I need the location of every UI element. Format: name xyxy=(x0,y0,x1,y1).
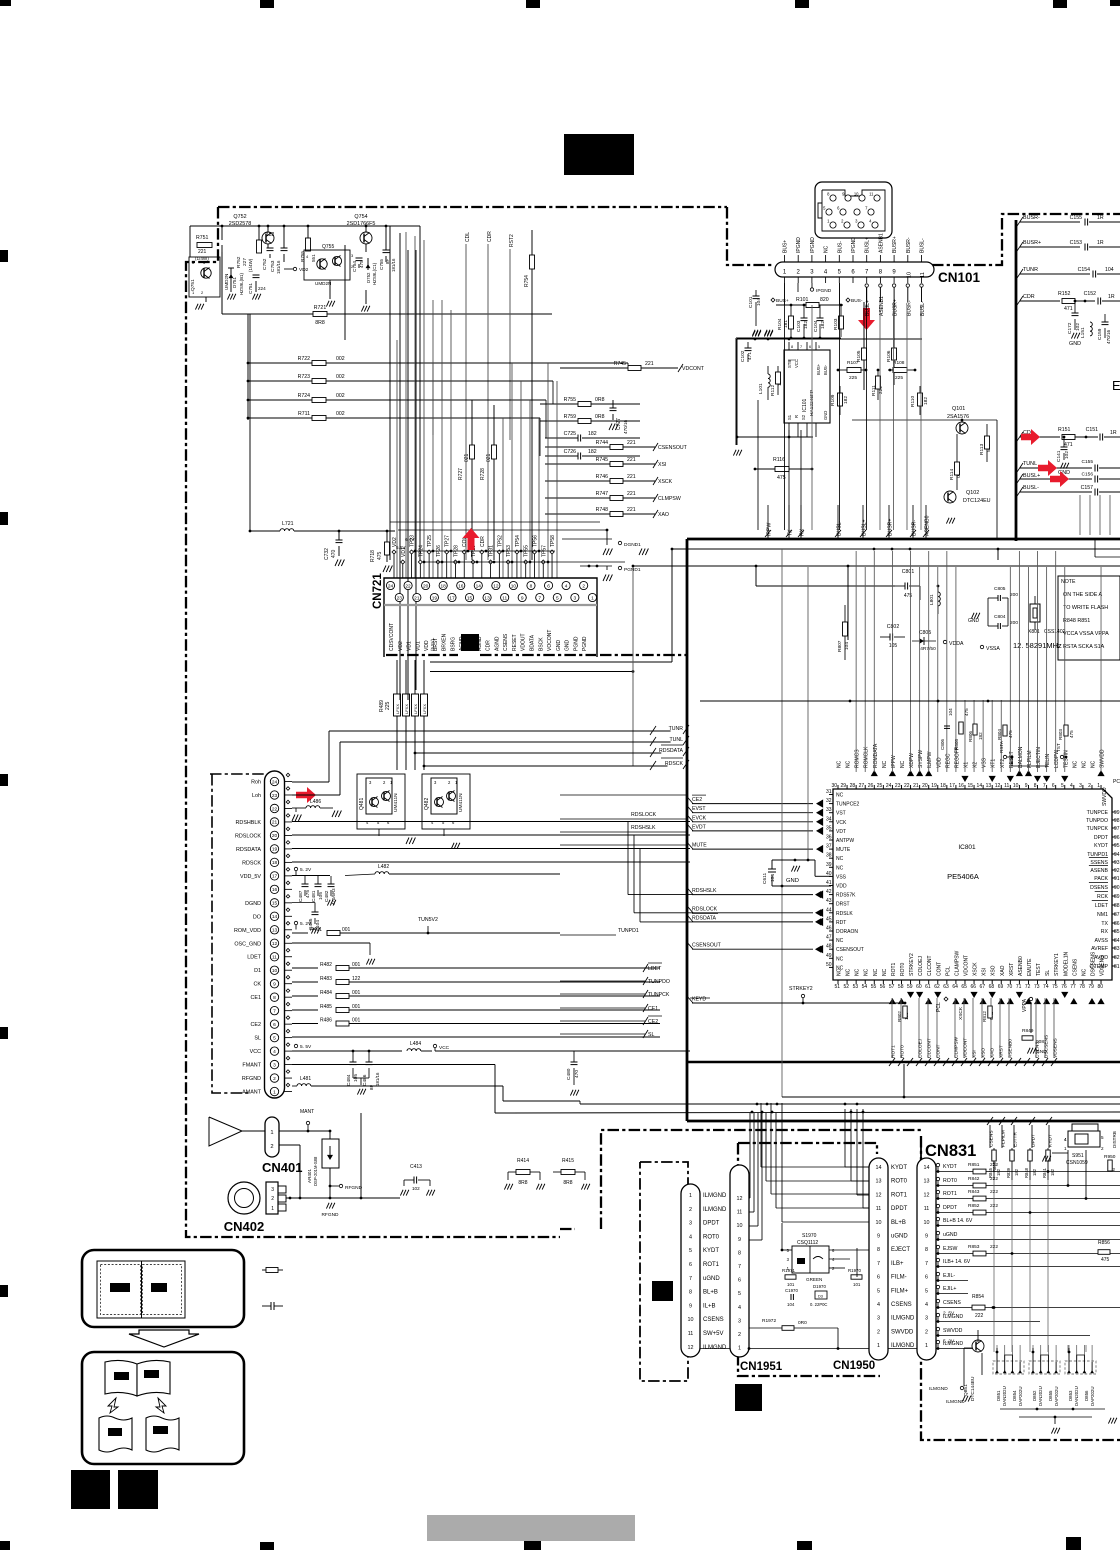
capacitor C801 475 xyxy=(895,569,920,600)
svg-text:TUNL: TUNL xyxy=(1023,461,1037,467)
svg-text:23: 23 xyxy=(272,793,278,799)
svg-text:36: 36 xyxy=(826,835,832,841)
svg-text:39: 39 xyxy=(826,862,832,868)
resistor R803 475 xyxy=(1058,725,1074,740)
svg-text:5: 5 xyxy=(689,1248,692,1254)
svg-text:10: 10 xyxy=(924,1220,930,1226)
svg-text:R718: R718 xyxy=(370,550,376,562)
svg-text:BUS-: BUS- xyxy=(851,298,863,304)
svg-text:X1: X1 xyxy=(963,762,969,768)
svg-text:1: 1 xyxy=(925,1343,928,1349)
svg-text:551: 551 xyxy=(311,254,316,262)
wire RDS jog verticals xyxy=(628,822,692,922)
svg-text:15: 15 xyxy=(272,901,278,907)
wire Loh/MUTE feed rows xyxy=(560,795,688,845)
capacitor C727 470/16 xyxy=(609,400,628,434)
wire OSC_GND xyxy=(292,943,375,965)
ground GND (crystal) xyxy=(968,613,980,624)
svg-text:IPGND: IPGND xyxy=(796,237,802,253)
svg-text:TUNPCE: TUNPCE xyxy=(1087,810,1109,816)
ground (C412) xyxy=(400,1190,434,1196)
capacitor C726 182 xyxy=(545,449,640,460)
wire left feed column xyxy=(247,314,249,420)
svg-text:R485: R485 xyxy=(320,1004,332,1010)
svg-text:99: 99 xyxy=(1114,810,1120,816)
svg-text:11: 11 xyxy=(688,1331,694,1337)
svg-text:2: 2 xyxy=(689,1207,692,1213)
svg-text:80: 80 xyxy=(1097,984,1103,990)
svg-text:VSS: VSS xyxy=(982,757,988,768)
svg-text:12: 12 xyxy=(924,1192,930,1198)
svg-text:VDD: VDD xyxy=(936,757,942,768)
svg-text:KYDT: KYDT xyxy=(1094,843,1109,849)
IC IC801 PE5406A body xyxy=(833,789,1112,980)
resistor R724 002 xyxy=(247,393,546,403)
wire CN831 row ROT0 xyxy=(936,1176,1120,1188)
wire RDSCK xyxy=(424,758,689,770)
svg-text:CE1: CE1 xyxy=(251,995,262,1001)
wire CN402 to ground rail xyxy=(286,1113,400,1199)
svg-text:CN1951: CN1951 xyxy=(740,1361,783,1373)
svg-text:COLOEJ: COLOEJ xyxy=(918,1038,924,1058)
svg-text:8: 8 xyxy=(738,1250,741,1256)
svg-text:PGND1: PGND1 xyxy=(624,567,641,573)
resistor R751 221 xyxy=(195,235,212,261)
svg-text:66: 66 xyxy=(970,984,976,990)
svg-text:ASENB0: ASENB0 xyxy=(1018,956,1024,976)
resistor R802 105 xyxy=(897,1006,909,1022)
svg-text:RDT: RDT xyxy=(836,920,846,926)
svg-text:C732: C732 xyxy=(324,548,330,560)
svg-text:ASENB0: ASENB0 xyxy=(925,515,931,536)
svg-text:3: 3 xyxy=(1079,783,1082,789)
svg-text:CLMPSW: CLMPSW xyxy=(658,496,681,502)
svg-text:221: 221 xyxy=(627,507,636,513)
svg-text:200: 200 xyxy=(1010,620,1018,626)
resistor R950 102 xyxy=(1104,1154,1116,1173)
svg-text:10: 10 xyxy=(876,1220,882,1226)
svg-text:222: 222 xyxy=(975,1313,984,1319)
svg-text:VDDA: VDDA xyxy=(949,641,964,647)
diode C805 4R7/50 xyxy=(912,630,936,652)
svg-text:18: 18 xyxy=(272,860,278,866)
node XSCK xyxy=(947,1006,964,1020)
resistor R804 475 xyxy=(997,725,1013,740)
svg-text:001: 001 xyxy=(352,990,361,996)
svg-text:GND: GND xyxy=(1069,341,1081,347)
svg-text:CK: CK xyxy=(254,982,262,988)
svg-text:C487: C487 xyxy=(298,890,304,902)
svg-text:R853: R853 xyxy=(968,1244,980,1250)
svg-text:NC: NC xyxy=(1072,760,1078,768)
svg-text:10: 10 xyxy=(511,583,517,589)
svg-text:CE2: CE2 xyxy=(251,1022,262,1028)
svg-text:32: 32 xyxy=(826,798,832,804)
node 5.5V (VCC) xyxy=(294,1044,312,1050)
svg-text:R1970: R1970 xyxy=(848,1268,861,1273)
svg-text:LFXX: LFXX xyxy=(404,704,409,714)
svg-text:4: 4 xyxy=(1070,783,1073,789)
svg-text:R759: R759 xyxy=(564,414,577,420)
svg-text:NC: NC xyxy=(836,938,844,944)
resistor R728 021 xyxy=(480,405,497,560)
svg-text:BUSR+: BUSR+ xyxy=(892,236,898,253)
svg-text:6: 6 xyxy=(809,345,811,349)
svg-text:4: 4 xyxy=(738,1305,741,1311)
svg-text:5.5V: 5.5V xyxy=(396,545,406,550)
wire RDSLOCK/EVCK rows (boundary) xyxy=(560,812,825,832)
svg-text:XSO: XSO xyxy=(981,1048,987,1058)
resistor R483 122 xyxy=(292,976,660,985)
svg-text:C725: C725 xyxy=(564,431,577,437)
ground (R415) xyxy=(553,1182,590,1190)
svg-text:DPDT: DPDT xyxy=(943,1205,958,1211)
photocoupler Q481 UM411N xyxy=(357,774,405,836)
svg-text:R112: R112 xyxy=(770,385,776,396)
svg-text:UM411N: UM411N xyxy=(393,793,399,812)
svg-text:D752: D752 xyxy=(366,272,371,283)
svg-text:R854: R854 xyxy=(972,1294,984,1300)
svg-text:47: 47 xyxy=(826,935,832,941)
svg-text:RFGND: RFGND xyxy=(321,1212,339,1218)
svg-text:25: 25 xyxy=(877,783,883,789)
svg-text:CDR: CDR xyxy=(1023,294,1035,300)
wire CN831 row uGND xyxy=(936,1231,1120,1241)
legend: down arrow xyxy=(129,1330,199,1347)
svg-text:R482: R482 xyxy=(320,962,332,968)
transistor Q102 DTC124EU xyxy=(944,490,991,506)
connector CN1950 right column xyxy=(917,1158,936,1360)
svg-text:475: 475 xyxy=(1008,730,1013,738)
svg-text:C726: C726 xyxy=(564,449,577,455)
svg-text:NC: NC xyxy=(855,968,861,976)
svg-text:NC: NC xyxy=(1090,760,1096,768)
svg-text:9: 9 xyxy=(521,595,524,601)
svg-text:CONT: CONT xyxy=(936,962,942,976)
connector CN401 xyxy=(262,1117,302,1175)
wire RDSLOCK row xyxy=(292,834,690,836)
svg-text:R483: R483 xyxy=(320,976,332,982)
capacitor C480 470 xyxy=(566,1051,580,1096)
svg-text:VDD_5V: VDD_5V xyxy=(240,874,261,880)
svg-text:RESET: RESET xyxy=(512,634,518,651)
ground (Q102) xyxy=(946,518,954,524)
svg-text:29: 29 xyxy=(841,783,847,789)
svg-text:BL+B: BL+B xyxy=(891,1220,906,1226)
resistor R807 104 xyxy=(837,566,850,660)
svg-text:R152: R152 xyxy=(1058,291,1071,297)
inductor L482 xyxy=(330,864,560,876)
svg-text:CE2: CE2 xyxy=(692,797,702,803)
connector CN101 plug face xyxy=(815,182,892,238)
svg-text:19: 19 xyxy=(931,783,937,789)
svg-text:182: 182 xyxy=(820,321,826,329)
svg-text:4: 4 xyxy=(925,1302,928,1308)
svg-text:NC: NC xyxy=(846,968,852,976)
svg-text:Loh: Loh xyxy=(252,793,261,799)
svg-text:AR401: AR401 xyxy=(307,1169,312,1183)
svg-text:20: 20 xyxy=(423,583,429,589)
svg-text:EJIL-: EJIL- xyxy=(943,1273,955,1279)
resistor R745 221 (VDCONT) xyxy=(560,361,705,372)
svg-text:R852: R852 xyxy=(968,1203,980,1209)
svg-text:C1970: C1970 xyxy=(785,1288,798,1293)
svg-text:NC: NC xyxy=(824,245,830,253)
svg-text:R151: R151 xyxy=(1058,427,1071,433)
svg-text:UMD2N: UMD2N xyxy=(224,274,229,290)
wire CN101 pin fanout xyxy=(757,283,926,316)
svg-text:R802: R802 xyxy=(897,1011,902,1022)
svg-text:8F: 8F xyxy=(369,1085,374,1090)
capacitor C611 104 xyxy=(762,859,831,888)
wire BUSR+ row xyxy=(1017,240,1120,251)
svg-text:475: 475 xyxy=(904,593,913,599)
wire CN101 bus verticals xyxy=(785,287,922,530)
svg-text:Q755: Q755 xyxy=(322,244,334,250)
wire CN831 row ILMGND xyxy=(936,1340,980,1350)
svg-text:Roh: Roh xyxy=(251,780,261,786)
node TUN5V2 xyxy=(418,917,438,934)
wire CN831 row DPDT xyxy=(936,1203,1120,1215)
svg-text:VST: VST xyxy=(836,811,846,817)
svg-text:41: 41 xyxy=(826,880,832,886)
svg-text:11: 11 xyxy=(869,192,874,197)
svg-text:1: 1 xyxy=(271,1206,274,1212)
wire FMANT xyxy=(292,1065,495,1114)
svg-text:DAP202U: DAP202U xyxy=(1018,1386,1023,1406)
svg-text:IPGND: IPGND xyxy=(816,288,832,294)
svg-text:182: 182 xyxy=(588,431,597,437)
svg-text:PE5406A: PE5406A xyxy=(947,872,979,881)
svg-text:L486: L486 xyxy=(310,799,321,805)
capacitor C103 182 xyxy=(796,304,809,337)
transistor Q101 2SA1576 xyxy=(852,406,997,538)
svg-text:CSENS: CSENS xyxy=(943,1300,961,1306)
svg-text:R806: R806 xyxy=(968,731,973,742)
capacitor C732 470 xyxy=(324,530,344,566)
capacitor C141 102 xyxy=(1056,436,1070,462)
wire regulator outputs xyxy=(345,226,420,700)
svg-text:104: 104 xyxy=(787,1302,795,1307)
svg-text:CDR: CDR xyxy=(486,640,492,651)
svg-text:SYSPW: SYSPW xyxy=(918,750,924,768)
svg-text:6: 6 xyxy=(547,583,550,589)
resistor R104 181 xyxy=(777,304,794,337)
svg-text:RSTA SCKA S1A: RSTA SCKA S1A xyxy=(1063,644,1105,650)
svg-text:C413: C413 xyxy=(410,1164,422,1170)
svg-text:BUSL+: BUSL+ xyxy=(1023,473,1040,479)
svg-text:2: 2 xyxy=(877,1329,880,1335)
svg-text:XSCK: XSCK xyxy=(973,962,979,976)
svg-text:RFGND: RFGND xyxy=(345,1185,363,1191)
svg-text:1: 1 xyxy=(591,595,594,601)
node STRKEY2 xyxy=(789,986,813,1003)
svg-text:R839: R839 xyxy=(1006,1167,1011,1178)
resistor R484 001 xyxy=(292,990,660,999)
svg-text:R856: R856 xyxy=(1098,1240,1110,1246)
svg-text:COLOEJ: COLOEJ xyxy=(918,955,924,976)
svg-text:TEST: TEST xyxy=(1036,963,1042,976)
svg-text:5: 5 xyxy=(818,345,820,349)
svg-text:CLCONT: CLCONT xyxy=(927,1038,933,1058)
svg-text:BUS+: BUS+ xyxy=(816,363,821,375)
svg-text:67: 67 xyxy=(980,984,986,990)
svg-text:14: 14 xyxy=(977,783,983,789)
legend: resistor symbol xyxy=(262,1268,283,1273)
svg-text:22: 22 xyxy=(904,783,910,789)
svg-text:XAO: XAO xyxy=(990,1048,996,1058)
svg-text:VCC: VCC xyxy=(794,359,799,368)
svg-text:94: 94 xyxy=(1114,852,1120,858)
wire CN831 row BL+B 14. 6V xyxy=(936,1217,1120,1227)
svg-text:97: 97 xyxy=(1114,826,1120,832)
svg-text:FLPILM: FLPILM xyxy=(1027,750,1033,768)
svg-text:R950: R950 xyxy=(1104,1154,1116,1160)
wire CN831 row EJIL+ xyxy=(936,1285,968,1295)
svg-text:002: 002 xyxy=(336,374,345,380)
pointer arrow (red) at CN101 pin 7 xyxy=(858,308,875,330)
svg-text:C801: C801 xyxy=(902,569,915,575)
svg-text:102: 102 xyxy=(1064,451,1070,459)
svg-text:L481: L481 xyxy=(300,1076,311,1082)
svg-text:BUS-: BUS- xyxy=(823,364,828,375)
svg-text:1R: 1R xyxy=(1110,430,1117,436)
svg-text:ASENB0: ASENB0 xyxy=(1008,1039,1014,1058)
svg-text:182: 182 xyxy=(996,1168,1001,1176)
svg-text:46: 46 xyxy=(826,926,832,932)
svg-text:001: 001 xyxy=(342,927,351,933)
resistor R111 222 xyxy=(871,369,884,400)
svg-text:182: 182 xyxy=(923,397,929,405)
svg-text:GND: GND xyxy=(823,411,828,420)
wire crystal rail xyxy=(700,700,1120,703)
pointer arrow (red) at TUNL xyxy=(1038,460,1057,476)
svg-text:11: 11 xyxy=(502,595,507,601)
svg-text:225: 225 xyxy=(895,375,903,381)
svg-text:3: 3 xyxy=(738,1318,741,1324)
svg-text:3: 3 xyxy=(574,595,577,601)
svg-text:PGND: PGND xyxy=(582,636,588,651)
svg-text:12: 12 xyxy=(995,783,1001,789)
svg-text:FILM+: FILM+ xyxy=(891,1288,909,1294)
svg-text:DAN202U: DAN202U xyxy=(1074,1386,1079,1406)
svg-text:C151: C151 xyxy=(1086,427,1099,433)
capacitor C172 102 xyxy=(1067,300,1081,334)
capacitor C805 200 xyxy=(988,586,1018,601)
filter AR401 DSP-201M-S88 xyxy=(279,1130,363,1198)
svg-text:470/16: 470/16 xyxy=(623,420,628,434)
svg-text:R1971: R1971 xyxy=(782,1268,795,1273)
svg-text:104: 104 xyxy=(770,874,776,882)
svg-text:72: 72 xyxy=(1025,984,1031,990)
svg-text:91: 91 xyxy=(1114,876,1120,882)
svg-text:TX: TX xyxy=(1101,921,1108,927)
wire section divider (thick) xyxy=(687,220,1120,1121)
wire DGND1 xyxy=(562,529,645,580)
svg-text:93: 93 xyxy=(1114,860,1120,866)
svg-text:13: 13 xyxy=(986,783,992,789)
transistor Q751 UMD2N xyxy=(189,257,220,297)
resistor R105 101 xyxy=(856,302,869,390)
ground GND (C172) xyxy=(1069,333,1081,347)
svg-text:12: 12 xyxy=(737,1196,743,1202)
transistor Q851 DTC144EU xyxy=(963,1330,984,1401)
svg-text:XSCK: XSCK xyxy=(658,479,673,485)
svg-text:C154: C154 xyxy=(1078,267,1091,273)
svg-text:IPGND: IPGND xyxy=(810,237,816,253)
wire CN831 row CSENS xyxy=(936,1299,1120,1309)
svg-text:CSENS: CSENS xyxy=(503,633,509,651)
svg-text:TP58: TP58 xyxy=(550,535,556,547)
svg-text:CN721: CN721 xyxy=(372,573,384,609)
svg-text:52: 52 xyxy=(844,984,850,990)
svg-text:CSENSOUT: CSENSOUT xyxy=(836,947,864,953)
svg-text:R116: R116 xyxy=(773,457,785,463)
svg-text:48: 48 xyxy=(826,944,832,950)
svg-text:R414: R414 xyxy=(517,1158,529,1164)
svg-text:85: 85 xyxy=(1114,929,1120,935)
wire CN1951-CN1950 mesh xyxy=(600,1103,937,1349)
svg-text:225: 225 xyxy=(385,701,391,710)
svg-text:KYDT: KYDT xyxy=(1048,1134,1054,1147)
svg-text:92: 92 xyxy=(1114,868,1120,874)
svg-text:RX: RX xyxy=(1101,929,1109,935)
wire boundary signals (IPPW TX RX BUSL- BUSL+ BUSR+ BUSR- ASENB0) xyxy=(765,505,931,539)
resistor R485 001 xyxy=(292,1004,660,1013)
resistor R849 008 xyxy=(1022,1002,1044,1045)
wire long bus rows (lower) xyxy=(495,1064,1120,1113)
node VD2 xyxy=(284,267,309,273)
svg-text:NC: NC xyxy=(1081,968,1087,976)
wire row jogs xyxy=(540,363,628,456)
svg-text:L484: L484 xyxy=(410,1041,421,1047)
svg-text:14: 14 xyxy=(476,583,482,589)
svg-text:SWVDD: SWVDD xyxy=(943,1328,963,1334)
svg-text:CN401: CN401 xyxy=(262,1160,302,1175)
resistor network R489 225 xyxy=(379,660,428,770)
svg-text:C157: C157 xyxy=(1081,485,1094,491)
svg-text:NC: NC xyxy=(882,968,888,976)
wire left label rows (LDET TUNPDO TUNPCK CE1 CE2 SL) xyxy=(560,963,688,1038)
capacitor C412 102 xyxy=(404,1164,430,1191)
svg-text:KYDT: KYDT xyxy=(891,1165,907,1171)
svg-text:D3: D3 xyxy=(818,1295,823,1299)
svg-text:13: 13 xyxy=(484,595,490,601)
node CDR (vertical feed) xyxy=(487,231,493,560)
wire CN831 row KYDT xyxy=(936,1162,1120,1174)
svg-text:101: 101 xyxy=(853,1282,861,1287)
IC801 right cut numbers xyxy=(1113,779,1120,785)
svg-text:EJECTIN: EJECTIN xyxy=(1036,747,1042,768)
ground (CN101 input filter) xyxy=(752,330,772,336)
capacitor C484 105 xyxy=(346,1050,359,1086)
svg-text:101: 101 xyxy=(787,1282,795,1287)
svg-text:NC: NC xyxy=(882,760,888,768)
resistor R845 102 xyxy=(992,1161,997,1172)
svg-text:1R: 1R xyxy=(1097,215,1104,221)
svg-text:DAP202U: DAP202U xyxy=(1090,1386,1095,1406)
svg-text:STRKEY2: STRKEY2 xyxy=(909,953,915,976)
ground (Q751 cluster) xyxy=(195,294,260,310)
svg-text:15: 15 xyxy=(467,595,473,601)
svg-text:TUN5V2: TUN5V2 xyxy=(418,917,438,923)
svg-text:31: 31 xyxy=(826,789,832,795)
diode D751 HZS9L(B1) xyxy=(224,268,244,295)
svg-text:RDSDATA: RDSDATA xyxy=(659,748,684,754)
svg-text:DGND1: DGND1 xyxy=(624,542,641,548)
svg-text:33: 33 xyxy=(826,807,832,813)
wire BUSR- row xyxy=(1017,215,1120,226)
